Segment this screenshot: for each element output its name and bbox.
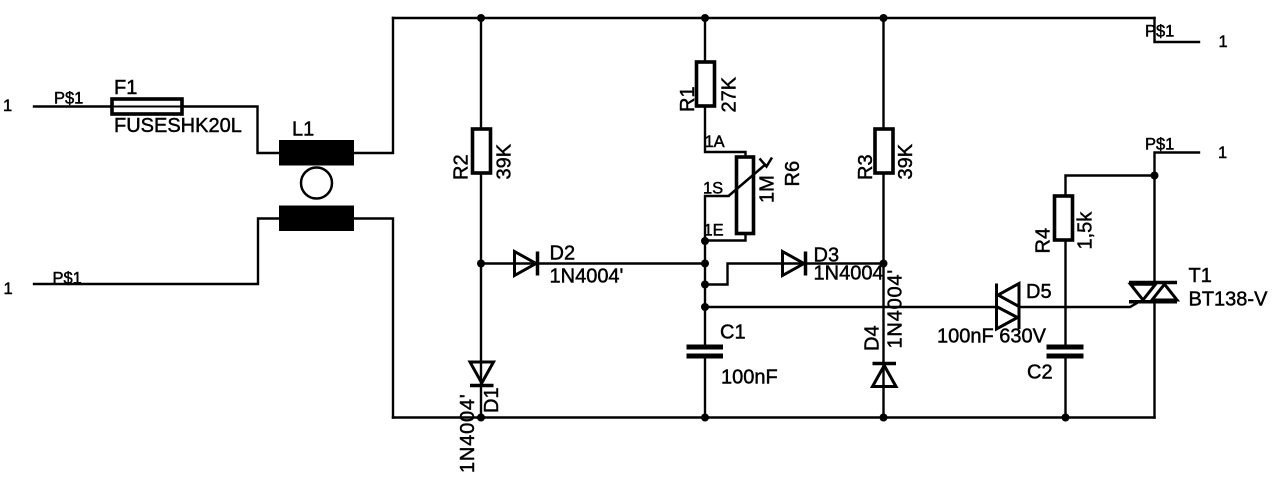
wire snubber R4 top [1066,176,1155,197]
svg-text:1N4004: 1N4004 [814,263,884,285]
wire top-left pin to fuse [34,105,112,107]
wire R2 to D1 [480,172,482,385]
potentiometer R6 body [737,157,754,234]
svg-text:FUSESHK20L: FUSESHK20L [114,115,242,137]
svg-text:C2: C2 [1027,362,1053,384]
svg-text:T1: T1 [1189,265,1212,287]
capacitor C1 [687,345,724,359]
svg-text:39K: 39K [895,143,917,179]
wire bottom rail [393,416,1155,418]
diac D5 [995,284,998,330]
svg-text:1: 1 [1218,144,1227,162]
svg-text:D4: D4 [862,325,884,351]
wire top-right pin [1155,18,1200,42]
svg-text:100nF 630V: 100nF 630V [937,326,1047,348]
wire top rail to R1 [704,18,706,62]
resistor R4 [1055,196,1073,240]
svg-text:R6: R6 [782,161,804,187]
junction top rail R2 [477,14,485,22]
svg-text:C1: C1 [720,322,746,344]
diode D4 [873,366,897,387]
junction bottom rail D1 [477,414,485,422]
wire triac bottom to rail [1153,304,1155,418]
inductor L1 winding bottom [279,206,354,232]
svg-text:R2: R2 [451,154,473,180]
wire C2 to bottom rail [1064,359,1066,418]
svg-text:R4: R4 [1033,228,1055,254]
wire D2 cathode to node [537,262,705,264]
svg-text:1,5k: 1,5k [1075,211,1097,250]
wire R3 to D4 [882,172,884,364]
svg-text:D2: D2 [550,243,576,265]
wire top rail [393,17,1155,19]
wire through fuse [112,105,182,107]
wire D5 to triac gate [1021,303,1137,307]
wire R1 to pot 1A [705,105,746,157]
svg-text:D1: D1 [481,387,503,413]
svg-text:1N4004': 1N4004' [457,394,479,473]
wire top rail to R2 [480,18,482,129]
svg-text:P$1: P$1 [54,90,83,108]
inductor L1 winding top [279,140,354,166]
junction top rail R3 [880,14,888,22]
wire D3 cathode to R3 line [806,262,884,264]
junction gate rail node [701,303,709,311]
svg-text:100nF: 100nF [721,367,778,389]
resistor R3 [875,129,893,173]
junction top rail R1 [701,14,709,22]
resistor R1 [697,62,715,106]
wire node to D3 anode jog [705,264,805,285]
junction D3 anode node [701,281,709,289]
svg-text:27K: 27K [719,76,741,112]
diode D3 [783,252,805,276]
wire pot bottom 1E [705,234,746,241]
junction pot 1E node [701,237,709,245]
svg-text:1E: 1E [704,222,724,240]
capacitor C2 [1047,345,1084,359]
svg-text:1S: 1S [703,180,723,198]
diode D1 [470,362,494,383]
svg-text:P$1: P$1 [1145,23,1174,41]
potentiometer R6 wiper arrow [729,158,773,197]
wire node to D2 anode [481,262,537,264]
wire pot wiper 1S [705,196,729,345]
wire mid-right pin [1155,153,1200,282]
junction D3 cathode R3 [880,260,888,268]
wire R4 to C2 [1064,240,1066,345]
wire top rail to R3 [882,18,884,129]
svg-text:D5: D5 [1026,281,1052,303]
svg-text:1N4004': 1N4004' [550,266,624,288]
wire D4 to bottom rail [882,364,884,418]
triac T1 [1129,281,1177,285]
svg-text:1: 1 [4,280,13,298]
junction bottom rail D4 [880,414,888,422]
svg-text:P$1: P$1 [1145,136,1174,154]
svg-text:1M: 1M [757,175,779,203]
junction snubber top [1151,172,1159,180]
svg-text:1: 1 [1219,33,1228,51]
svg-text:L1: L1 [292,119,314,141]
svg-text:R1: R1 [677,86,699,112]
svg-text:39K: 39K [494,143,516,179]
resistor R2 [473,129,491,173]
wire bottom-left pin to L1 lower left [34,219,279,285]
svg-text:F1: F1 [114,77,137,99]
svg-text:BT138-V: BT138-V [1189,289,1269,311]
wire L1 lower right to bottom rail [354,219,393,418]
wire D1 to bottom rail [480,386,482,418]
svg-text:P$1: P$1 [53,270,82,288]
svg-text:1: 1 [3,97,12,115]
junction bottom rail C2 [1062,414,1070,422]
junction D2 anode node [477,260,485,268]
svg-text:1A: 1A [705,133,725,151]
fuse F1 [112,99,182,114]
inductor L1 core circle [301,168,332,199]
wire gate rail node to D5 [705,306,995,308]
diode D2 [515,252,537,276]
svg-text:1N4004': 1N4004' [885,269,907,348]
svg-text:R3: R3 [855,154,877,180]
wire C1 bottom to rail [704,359,706,418]
junction D2 cathode node [701,260,709,268]
wire L1 upper right to top rail [354,18,393,153]
junction bottom rail C1 [701,414,709,422]
wire fuse to corner [182,107,279,154]
